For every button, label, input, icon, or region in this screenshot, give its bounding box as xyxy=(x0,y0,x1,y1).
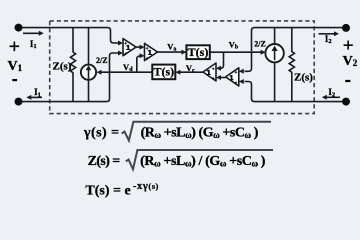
svg-text:Z(s): Z(s) xyxy=(294,71,313,83)
svg-text:T(s): T(s) xyxy=(153,65,174,79)
svg-text:+: + xyxy=(146,57,149,62)
svg-text:2/Z: 2/Z xyxy=(96,56,108,65)
svg-text:γ(s) =: γ(s) = xyxy=(83,125,120,140)
svg-text:T(s) = e: T(s) = e xyxy=(85,183,130,198)
svg-text:+: + xyxy=(212,68,215,73)
svg-text:+: + xyxy=(9,36,20,58)
svg-text:+: + xyxy=(124,52,127,57)
svg-text:+: + xyxy=(146,47,149,52)
svg-text:+: + xyxy=(212,77,215,82)
svg-text:Z(s) =: Z(s) = xyxy=(88,154,121,169)
svg-text:+: + xyxy=(235,82,238,87)
svg-text:T(s): T(s) xyxy=(188,45,209,59)
svg-text:Z(s): Z(s) xyxy=(53,61,72,73)
svg-text:+: + xyxy=(235,71,238,76)
svg-text:-xγ(s): -xγ(s) xyxy=(133,181,159,192)
svg-text:2/Z: 2/Z xyxy=(254,40,266,49)
svg-text:+: + xyxy=(124,42,127,47)
